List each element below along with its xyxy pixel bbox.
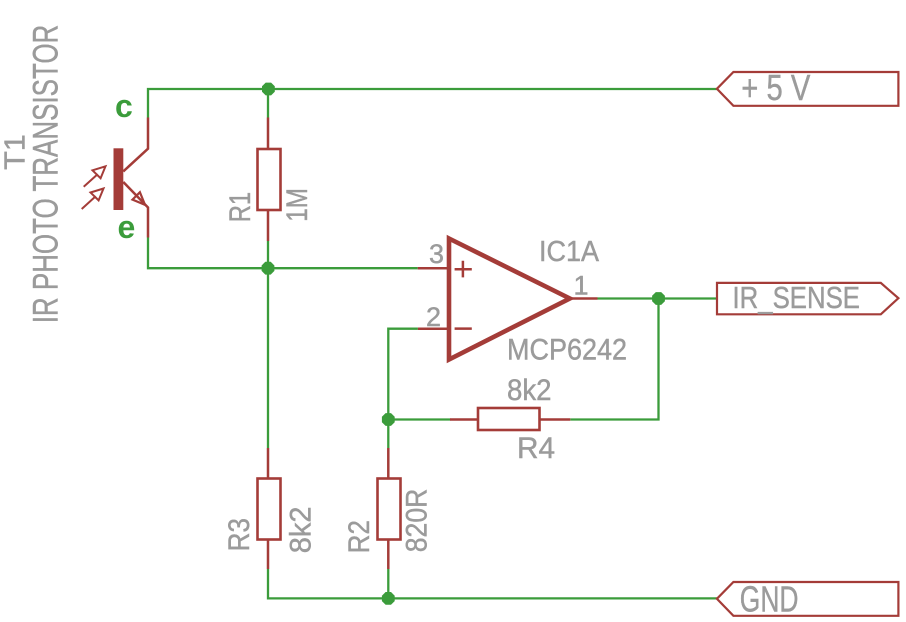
svg-text:+ 5 V: + 5 V <box>741 67 810 108</box>
resistor R1 top lead <box>267 118 270 150</box>
net flag GND <box>717 582 899 616</box>
transistor T1 collector lead <box>123 118 148 172</box>
resistor R4 right lead <box>540 418 571 421</box>
transistor T1 base bar <box>114 148 124 210</box>
resistor R1 body <box>258 149 281 210</box>
wire R1 top stub <box>267 89 269 118</box>
wire R1 bottom to node <box>267 241 269 268</box>
svg-text:c: c <box>115 88 133 124</box>
svg-text:R2: R2 <box>343 520 376 553</box>
svg-text:IR_SENSE: IR_SENSE <box>733 280 861 315</box>
op-amp plus symbol <box>455 261 472 278</box>
svg-text:R3: R3 <box>223 518 256 551</box>
transistor T1 light arrow 1 shaft <box>84 174 98 187</box>
resistor R2 body <box>378 479 401 540</box>
op-amp pin 3 stub <box>418 267 450 270</box>
wire output net to IR_SENSE <box>598 297 718 299</box>
svg-text:e: e <box>118 209 136 245</box>
wire feedback from R4 to output <box>570 299 658 420</box>
op-amp output pin stub <box>571 297 598 300</box>
resistor R1 bottom lead <box>267 210 270 241</box>
junction node on +5V rail <box>262 83 275 96</box>
svg-text:8k2: 8k2 <box>284 507 317 554</box>
junction node output <box>652 292 665 305</box>
op-amp IC1A triangle <box>449 239 570 360</box>
net flag +5V <box>717 72 899 106</box>
svg-text:IC1A: IC1A <box>539 236 600 268</box>
svg-text:R1: R1 <box>224 192 257 222</box>
transistor T1 emitter arrowhead <box>133 192 146 205</box>
wire GND bottom rail <box>268 569 717 598</box>
svg-text:1: 1 <box>574 271 589 301</box>
svg-text:MCP6242: MCP6242 <box>507 334 627 367</box>
wire top rail +5V net <box>148 89 717 118</box>
wire node to R3 top <box>267 268 269 448</box>
svg-text:820R: 820R <box>401 489 434 553</box>
op-amp pin 2 stub <box>418 327 450 330</box>
transistor T1 light arrow 2 shaft <box>82 196 96 209</box>
resistor R4 body <box>478 408 540 430</box>
svg-text:GND: GND <box>740 578 799 619</box>
resistor R4 left lead <box>450 418 478 421</box>
resistor R3 top lead <box>267 448 270 479</box>
junction node R4/R2 <box>382 413 395 426</box>
net flag IR_SENSE <box>717 283 898 314</box>
transistor T1 emitter lead <box>123 182 148 238</box>
svg-text:1M: 1M <box>281 188 314 222</box>
wire pin2 net <box>388 329 418 420</box>
svg-text:R4: R4 <box>517 432 555 465</box>
op-amp minus symbol <box>455 327 472 330</box>
wire R4 node to R4 left lead <box>388 418 450 420</box>
svg-text:IR PHOTO TRANSISTOR: IR PHOTO TRANSISTOR <box>26 25 66 324</box>
wire R2 bottom to GND rail <box>387 569 389 598</box>
svg-text:2: 2 <box>426 302 441 332</box>
svg-text:3: 3 <box>429 239 444 269</box>
resistor R3 bottom lead <box>267 540 270 570</box>
junction node pin3 net <box>262 262 275 275</box>
wire pin3 net from emitter <box>148 238 418 269</box>
resistor R2 bottom lead <box>387 540 390 570</box>
wire R4 node to R2 top <box>387 420 389 449</box>
resistor R2 top lead <box>387 448 390 479</box>
resistor R3 body <box>258 479 281 540</box>
transistor T1 light arrow 1 head <box>93 166 106 178</box>
transistor T1 light arrow 2 head <box>91 189 104 201</box>
junction node GND rail <box>382 592 395 605</box>
svg-text:8k2: 8k2 <box>507 374 552 407</box>
